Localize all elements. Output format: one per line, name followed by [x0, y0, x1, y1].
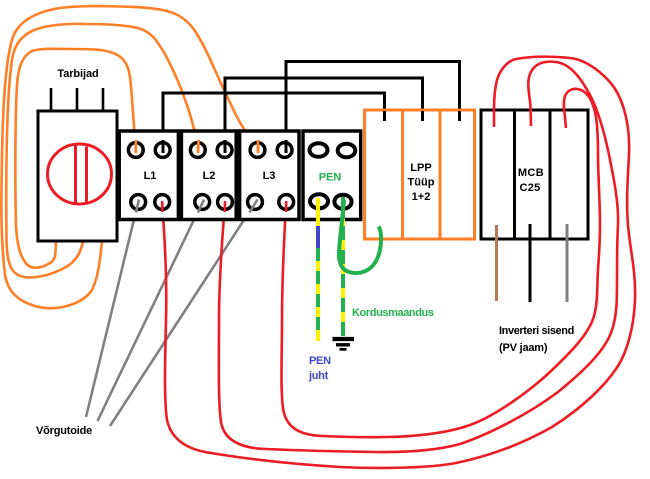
- grey wire from L2 bottom-left: [98, 203, 203, 421]
- MCB divider 2: [549, 110, 552, 239]
- LPP pin stub 3: [458, 111, 461, 121]
- black wire elbow L2 to LPP pin2: [225, 78, 423, 150]
- red stub L3 bottom-right circle: [285, 201, 288, 212]
- PEN right wire: yellow base: [341, 197, 345, 336]
- LPP pin stub 2: [421, 111, 424, 121]
- meter symbol red chord 2: [85, 147, 88, 203]
- surge protector LPP box: [365, 110, 475, 239]
- red wire L3 bottom to MCB pin3 (inner loop): [282, 89, 601, 437]
- black wire elbow L1 to LPP pin1: [163, 93, 385, 150]
- MCB bottom stub brown: [495, 225, 498, 301]
- terminal L1 top-right: [155, 143, 170, 158]
- grey stub L1 bottom-left circle: [136, 200, 139, 213]
- Kordusmaandus green loop: [339, 200, 381, 273]
- svg-text:LPP: LPP: [410, 162, 431, 174]
- terminal L1 top-left: [128, 143, 143, 158]
- svg-text:MCB: MCB: [518, 167, 544, 179]
- grey stub L2 bottom-left circle: [198, 200, 204, 213]
- svg-text:1+2: 1+2: [412, 191, 431, 203]
- PEN right wire: green dashes: [341, 197, 345, 336]
- LPP divider 1: [401, 110, 404, 239]
- Tarbijad top stub 2: [76, 88, 79, 111]
- svg-text:juht: juht: [308, 370, 329, 382]
- wire orange loop C from Tarbijad bottom to L3 top-left: [1, 6, 258, 308]
- terminal PEN top-right: [338, 144, 356, 158]
- black stub into L2 right circle: [224, 140, 227, 153]
- terminal block L3: [240, 131, 299, 220]
- svg-text:Kordusmaandus: Kordusmaandus: [352, 307, 434, 319]
- red wire L1 bottom to MCB pin1 (big outer loop): [162, 57, 635, 468]
- svg-text:Võrgutoide: Võrgutoide: [36, 425, 92, 437]
- black stub into L1 right circle: [162, 140, 165, 153]
- wire orange loop A from Tarbijad bottom to L1 top-left: [15, 49, 135, 268]
- terminal L2 bottom-right: [218, 195, 233, 210]
- terminal block L2: [181, 131, 236, 220]
- red wire L2 bottom to MCB pin2 (middle loop): [219, 62, 618, 452]
- terminal PEN bottom-left: [310, 194, 328, 208]
- LPP pin stub 1: [383, 111, 386, 121]
- terminal L3 top-right: [277, 143, 292, 158]
- terminal block L1: [119, 131, 178, 220]
- terminal PEN top-left: [310, 143, 328, 157]
- svg-text:(PV jaam): (PV jaam): [499, 342, 548, 354]
- PEN left wire: yellow segment: [316, 198, 320, 226]
- Tarbijad top stub 1: [50, 88, 53, 111]
- svg-text:PEN: PEN: [309, 355, 331, 367]
- terminal L1 bottom-left: [131, 195, 146, 210]
- grey wire from L3 bottom-left: [110, 203, 255, 426]
- svg-text:Tarbijad: Tarbijad: [57, 68, 98, 80]
- MCB bottom stub grey: [566, 224, 569, 302]
- MCB box: [481, 110, 588, 239]
- MCB divider 1: [513, 110, 516, 239]
- terminal L2 top-left: [190, 143, 205, 158]
- svg-text:L3: L3: [263, 170, 276, 182]
- ground symbol: [333, 339, 355, 349]
- terminal L3 bottom-left: [248, 195, 263, 210]
- LPP divider 2: [439, 110, 442, 239]
- svg-text:C25: C25: [519, 182, 540, 194]
- grey wire from L1 bottom-left: [86, 203, 138, 417]
- svg-text:L1: L1: [144, 170, 157, 182]
- MCB bottom stub black: [529, 224, 532, 302]
- terminal L2 top-right: [217, 143, 232, 158]
- orange stub into L2 left circle: [197, 140, 200, 153]
- orange stub into L3 left circle: [257, 140, 260, 153]
- orange stub into L1 left circle: [134, 140, 137, 153]
- wire orange loop B from Tarbijad bottom to L2 top-left: [6, 24, 200, 278]
- consumer box (Tarbijad): [38, 111, 117, 241]
- Tarbijad top stub 3: [102, 88, 105, 111]
- svg-text:Inverteri sisend: Inverteri sisend: [499, 325, 574, 337]
- svg-text:L2: L2: [203, 170, 216, 182]
- terminal block PEN: [303, 131, 361, 220]
- black stub into L3 right circle: [285, 140, 288, 153]
- meter symbol red circle: [48, 144, 112, 204]
- red stub L2 bottom-right circle: [224, 201, 227, 212]
- terminal L2 bottom-left: [195, 195, 210, 210]
- black wire elbow L3 to LPP pin3: [286, 62, 460, 151]
- svg-text:Tüüp: Tüüp: [408, 177, 435, 189]
- terminal L3 top-left: [250, 143, 265, 158]
- PEN left wire: blue segment: [316, 226, 320, 248]
- svg-text:PEN: PEN: [319, 172, 342, 184]
- grey stub L3 bottom-left circle: [250, 200, 258, 213]
- PEN left wire: green/yellow dashes: [316, 248, 320, 341]
- terminal PEN bottom-right: [334, 195, 351, 209]
- red stub L1 bottom-right circle: [161, 201, 164, 212]
- meter symbol red chord 1: [74, 146, 77, 204]
- terminal L3 bottom-right: [279, 195, 294, 210]
- terminal L1 bottom-right: [155, 195, 170, 210]
